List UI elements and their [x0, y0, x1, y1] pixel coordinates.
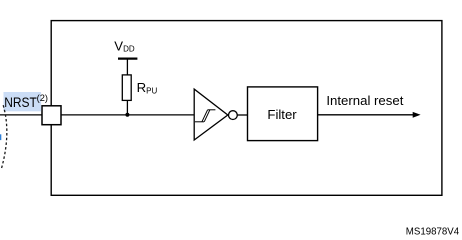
svg-text:Filter: Filter — [267, 107, 297, 122]
svg-text:RPU: RPU — [137, 80, 158, 95]
wire: bubble to filter — [237, 114, 247, 116]
svg-text:(2): (2) — [37, 93, 48, 103]
arrowhead — [413, 112, 421, 118]
svg-text:VDD: VDD — [114, 38, 135, 53]
dashed arc (external circuit cutoff) — [2, 105, 7, 168]
svg-text:MS19878V4: MS19878V4 — [406, 226, 460, 237]
hysteresis symbol — [195, 110, 216, 122]
inverter output bubble — [229, 111, 238, 120]
NRST label highlight — [4, 92, 42, 111]
NRST pad square — [42, 106, 61, 125]
blue sliver at edge — [0, 134, 1, 140]
device boundary box — [51, 21, 442, 196]
wire: filter output / internal reset — [318, 114, 414, 116]
wire: resistor to NRST net — [126, 100, 128, 115]
schmitt trigger inverter U1 triangle — [194, 89, 228, 140]
svg-text:Internal reset: Internal reset — [326, 93, 403, 108]
wire: VDD bar to resistor — [126, 59, 128, 76]
resistor RPU body — [122, 75, 131, 101]
junction dot — [125, 113, 129, 117]
VDD supply bar — [118, 57, 137, 59]
svg-text:NRST: NRST — [4, 95, 37, 110]
wire: NRST net (pad to inverter input) — [0, 114, 195, 116]
filter block — [248, 87, 318, 141]
